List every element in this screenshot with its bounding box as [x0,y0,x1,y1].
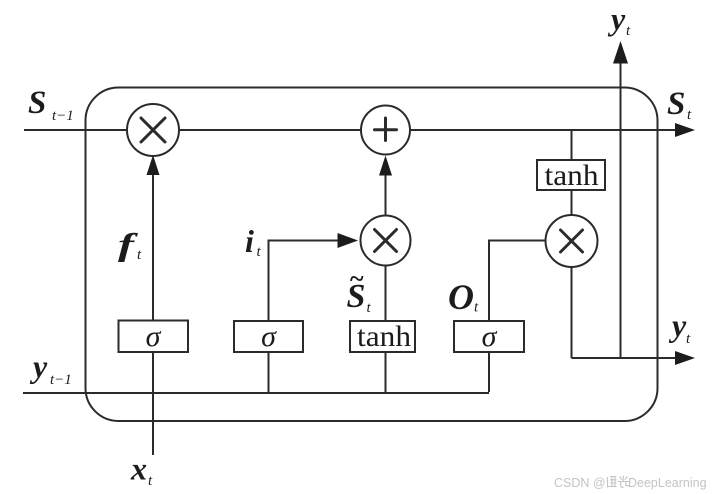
label S_t [667,86,692,123]
svg-text:DeepLearning: DeepLearning [628,476,707,490]
wire: i_t gate path [269,241,340,394]
multiply glyph M3 [561,230,583,252]
arrowhead: y_t output top [613,41,628,64]
add node A1 [361,106,410,155]
svg-text:t: t [257,244,262,260]
svg-text:t: t [687,107,692,123]
multiply node M3 (output) [546,215,598,267]
svg-text:CSDN @: CSDN @ [554,476,606,490]
svg-text:t−1: t−1 [50,372,72,388]
svg-text:f: f [118,227,138,262]
svg-text:i: i [245,223,254,259]
label y_t top [607,1,631,40]
arrowhead: candidate into A1 [379,156,392,176]
svg-text:t: t [367,300,372,316]
svg-text:t: t [137,247,142,263]
label i_t [245,223,262,260]
label y_{t-1} [29,348,72,388]
svg-text:t: t [148,473,153,489]
svg-text:S: S [667,86,685,122]
watermark glyph guang [618,476,629,488]
multiply glyph M2 [375,230,397,252]
wire: output gate path O [489,241,546,393]
sigma box (input gate) [234,321,303,352]
svg-text:σ: σ [261,320,277,353]
svg-text:t: t [474,300,479,316]
label S_{t-1} [28,85,74,124]
arrowhead: S_t output [675,123,695,137]
svg-text:x: x [130,451,147,487]
svg-text:t: t [626,23,631,39]
sigma box (forget gate) [119,321,189,353]
wire: cell state line S_{t-1} to S_t [24,129,678,131]
tanh box (candidate) [350,321,415,352]
wire: tanh output column [571,130,573,358]
wire: x_t / f_t vertical column [152,172,154,455]
label S~_t (candidate) [347,264,372,316]
svg-text:σ: σ [482,320,498,353]
tanh box (cell output) [537,160,605,190]
watermark DeepLearning [628,476,707,490]
label y_t right [668,307,691,347]
arrowhead: f_t into M1 [147,155,160,175]
svg-text:S: S [28,85,46,121]
svg-text:~: ~ [350,264,364,293]
label f_t [118,227,142,263]
svg-text:y: y [29,348,48,384]
svg-text:tanh: tanh [357,320,411,353]
arrowhead: i_t into M2 [338,233,359,248]
label O_t [448,277,479,317]
svg-text:O: O [448,277,474,317]
svg-text:t−1: t−1 [52,108,74,124]
add glyph A1 [375,118,397,141]
multiply node M2 (input) [361,216,411,266]
sigma box (output gate) [454,321,524,352]
wire: y_t output line [572,357,679,359]
wire: y_t upward branch [620,60,622,358]
multiply glyph M1 [141,118,165,142]
label x_t [130,451,153,490]
cell body rounded rectangle [86,88,658,422]
watermark CSDN [554,476,606,490]
svg-text:t: t [686,331,691,347]
multiply node M1 (forget) [127,104,179,156]
watermark glyph wei [608,477,617,488]
svg-text:tanh: tanh [545,159,599,192]
svg-text:y: y [668,307,687,343]
svg-text:σ: σ [146,320,162,353]
arrowhead: y_t output right [675,351,695,365]
wire: candidate column [385,174,387,392]
svg-text:y: y [607,1,626,37]
wire: y_{t-1} input line [23,392,489,394]
